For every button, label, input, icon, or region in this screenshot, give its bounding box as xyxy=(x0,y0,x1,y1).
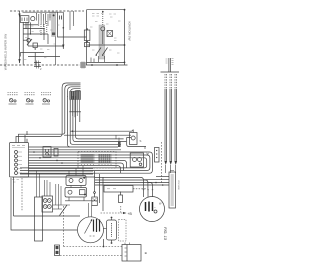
vertical harness lines right xyxy=(161,58,180,173)
harness bundle corner xyxy=(62,83,80,135)
diagonal jumper xyxy=(60,205,68,216)
resistor block xyxy=(155,148,160,163)
tiny box under link xyxy=(85,43,90,47)
stepped wire turns xyxy=(29,160,127,173)
dotted block A xyxy=(81,154,95,163)
wire sensor feed xyxy=(64,134,131,136)
battery box xyxy=(122,243,148,262)
wire sensor top feed xyxy=(70,130,133,132)
sensor unit box xyxy=(130,153,143,167)
junction xyxy=(69,28,70,29)
wire distributor-coil xyxy=(103,228,106,230)
connector symbol on dashed line xyxy=(34,63,41,67)
switch SW1 xyxy=(27,39,32,45)
left drop wires xyxy=(11,178,77,230)
wire xyxy=(28,56,60,58)
condenser fan unit tall box xyxy=(35,197,43,241)
dashed tops xyxy=(165,74,167,89)
gauge G2 xyxy=(25,93,35,104)
connector comb strip xyxy=(37,14,51,21)
ECU terminal circles xyxy=(15,151,23,175)
switch contacts xyxy=(96,48,101,56)
svg-text:+B: +B xyxy=(128,212,133,216)
ignition coil xyxy=(107,217,127,244)
shaded band ignition xyxy=(99,25,105,59)
battery cable 2 xyxy=(170,89,172,161)
wire xyxy=(43,29,45,40)
junction dots xyxy=(155,182,157,184)
dashed link to +B xyxy=(101,212,124,214)
component small box xyxy=(33,43,37,47)
band2 wires to alternator xyxy=(95,178,169,190)
fuse symbol on firewall xyxy=(80,63,86,67)
connector comb below xyxy=(70,100,79,112)
dashed compartment border top xyxy=(10,10,84,12)
wire xyxy=(22,22,24,64)
wire xyxy=(55,37,57,66)
arrow harness lead-in xyxy=(19,11,21,63)
svg-text:~: ~ xyxy=(154,205,156,209)
resistor column xyxy=(102,12,104,26)
svg-text:IGNITION SW: IGNITION SW xyxy=(128,22,132,41)
stub components xyxy=(91,58,94,63)
wire xyxy=(23,28,44,30)
ECU top microtext xyxy=(12,145,25,147)
voltage regulator tall box xyxy=(169,171,180,209)
ECU box xyxy=(10,143,29,178)
band1 harness wires xyxy=(29,96,127,150)
wire xyxy=(49,12,51,18)
wire xyxy=(23,39,27,41)
relay box R1 xyxy=(66,176,86,186)
wire xyxy=(34,53,36,65)
wire xyxy=(28,45,63,47)
distributor feed wires xyxy=(89,203,92,217)
shaded cable band xyxy=(52,12,56,37)
top bus xyxy=(87,9,125,11)
distributor circle xyxy=(78,203,104,243)
speed sensor box xyxy=(130,130,142,145)
wire xyxy=(13,177,15,216)
wire xyxy=(20,52,44,54)
dotted block B xyxy=(98,154,112,163)
wires to regulator xyxy=(156,176,169,178)
fan feed wires xyxy=(44,180,46,196)
relay box R2 xyxy=(65,188,87,198)
ECU output wires xyxy=(29,168,94,171)
junction xyxy=(103,246,105,248)
junction dots xyxy=(33,151,35,153)
bottom bus xyxy=(87,61,125,63)
fan motor box xyxy=(42,196,53,212)
ignition block: left rail xyxy=(86,10,88,65)
long lower wires xyxy=(20,173,93,175)
flasher box xyxy=(43,147,51,158)
resistor element xyxy=(54,149,58,157)
coil circle xyxy=(101,27,105,31)
wire xyxy=(30,22,32,34)
wire xyxy=(53,204,71,206)
fusible small part xyxy=(55,245,60,256)
wire xyxy=(25,22,27,28)
right rail xyxy=(124,10,126,65)
relay feed wires xyxy=(69,166,83,176)
battery cable 3 xyxy=(175,89,177,161)
wires into distributor xyxy=(94,171,96,192)
wire xyxy=(23,33,48,35)
dashed drop xyxy=(21,178,23,211)
dashed unit box xyxy=(78,152,116,169)
x mark xyxy=(146,153,149,156)
wire top bus xyxy=(23,11,64,13)
dark terminal xyxy=(118,141,121,147)
alternator xyxy=(140,197,165,222)
wire xyxy=(58,12,87,37)
gauge G1 xyxy=(8,93,18,104)
box with X xyxy=(107,31,113,37)
wire returns xyxy=(20,158,147,168)
resistor dotted column xyxy=(40,24,42,36)
stub to battery xyxy=(169,58,171,72)
wire stubs xyxy=(70,11,74,28)
wire drops xyxy=(116,135,119,141)
alternator terminals xyxy=(144,191,153,198)
svg-text:S: S xyxy=(140,139,142,143)
wire xyxy=(47,34,49,44)
wire xyxy=(69,111,81,113)
capacitor xyxy=(119,192,123,203)
relay RY1 box xyxy=(20,16,29,23)
connector comb tails xyxy=(39,21,48,28)
wire xyxy=(19,53,21,57)
top bus xyxy=(161,71,180,73)
dashed lead xyxy=(133,188,146,190)
dashed run bottom xyxy=(63,206,65,247)
wire under relays xyxy=(65,200,97,202)
relay link wires xyxy=(71,186,81,188)
dashed vertical right xyxy=(160,142,162,183)
nested loop wraps xyxy=(20,152,152,173)
spark plug xyxy=(92,192,98,206)
wire xyxy=(14,215,81,217)
junction xyxy=(30,33,31,34)
dashed firewall line xyxy=(0,64,80,66)
connector ends xyxy=(164,161,167,165)
comb stubs xyxy=(73,112,78,117)
fusible link box xyxy=(84,30,90,41)
motor circle xyxy=(31,17,35,21)
wire sensor loop xyxy=(127,138,146,147)
wire xyxy=(79,112,81,122)
svg-text:VOLTAGE: VOLTAGE xyxy=(177,180,180,191)
wire xyxy=(62,12,64,49)
connector hatch block xyxy=(70,91,81,99)
suppressor box xyxy=(104,186,133,193)
gauge G3 xyxy=(41,93,51,104)
battery cable 1 xyxy=(165,89,167,161)
svg-text:FIG. 13: FIG. 13 xyxy=(163,227,167,241)
mid bus xyxy=(87,44,125,46)
wire xyxy=(27,22,29,46)
fuse F1 xyxy=(60,16,62,20)
wires into ECU top xyxy=(16,134,62,143)
wire xyxy=(23,24,38,26)
tiny label marks xyxy=(24,25,59,60)
lower bus xyxy=(80,64,128,66)
